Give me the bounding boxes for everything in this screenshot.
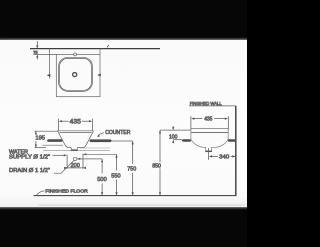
faint page edge line near bottom: [38, 204, 245, 206]
drain stub bottom (front elevation): [71, 149, 78, 151]
dimension 435 (shared, below top view): [58, 119, 92, 131]
left vertical line from wall with arrow: [49, 49, 51, 79]
svg-text:500: 500: [97, 177, 107, 183]
counter square (top view): [56, 54, 100, 96]
basin side view front rim edge line: [191, 132, 228, 134]
water supply leader: [53, 154, 65, 156]
dimension line 850: [159, 130, 161, 195]
supply height extension to 550: [83, 153, 117, 155]
svg-text:DRAIN Ø 1 1/2": DRAIN Ø 1 1/2": [9, 168, 50, 174]
dimension 200 extension lines: [67, 154, 83, 169]
counter height extension to 750: [112, 140, 133, 142]
dimension line 550: [116, 154, 118, 195]
drain (top view): [73, 73, 77, 77]
sink outer rim (top view): [59, 57, 93, 91]
svg-text:750: 750: [127, 167, 136, 173]
drain outlet circle: [74, 157, 77, 160]
svg-text:100: 100: [169, 134, 177, 140]
svg-text:200: 200: [71, 163, 80, 169]
basin bowl (front elevation) outer profile: [58, 131, 93, 150]
svg-text:435: 435: [70, 118, 82, 125]
wall line (top view, finished wall): [30, 48, 160, 50]
drain stub bottom (side view): [205, 151, 212, 153]
tick above wall line: [107, 45, 109, 48]
sink inner rim (top view): [60, 58, 92, 90]
dimension 195 (bowl height, front elevation): [35, 131, 58, 148]
drain leader diagonal: [54, 160, 74, 173]
rim height extension to 850: [160, 129, 191, 131]
svg-text:850: 850: [152, 163, 161, 169]
dimension line 500: [101, 159, 103, 196]
COUNTER leader arrow: [99, 133, 104, 136]
dimension line 750: [132, 141, 134, 196]
svg-text:195: 195: [35, 136, 45, 142]
floor line: [34, 195, 237, 197]
right edge extension up to wall + arrow: [99, 49, 101, 55]
dimension 435 (side view): [191, 116, 228, 131]
counter top edge extended left for 75 dim: [34, 53, 57, 55]
counter slab left (front elevation): [47, 139, 62, 142]
dimension 340 (drain to wall, side view): [209, 148, 236, 160]
drain height extension to 500: [77, 158, 102, 160]
svg-text:FINISHED WALL: FINISHED WALL: [190, 101, 222, 106]
basin side view outer profile: [191, 128, 228, 151]
finished wall vertical: [235, 106, 237, 196]
svg-text:COUNTER: COUNTER: [105, 130, 130, 136]
svg-text:550: 550: [111, 173, 120, 179]
svg-text:435: 435: [204, 116, 212, 122]
svg-text:SUPPLY Ø 1/2": SUPPLY Ø 1/2": [9, 154, 50, 160]
counter slab right (front elevation): [90, 139, 112, 142]
finished wall underline: [189, 105, 236, 107]
basin bowl inner rim line: [59, 131, 91, 133]
counter under lines (front elevation): [43, 144, 64, 146]
dimension 75 (wall to counter edge): [36, 41, 38, 60]
counter slab left (side view): [182, 139, 191, 142]
svg-text:340: 340: [219, 155, 229, 161]
finished floor leader: [37, 191, 45, 195]
counter slab right (side view): [228, 139, 236, 142]
dimension 100 (rim above counter): [172, 126, 174, 127]
faucet hole: [74, 53, 77, 56]
svg-text:FINISHED FLOOR: FINISHED FLOOR: [45, 188, 88, 193]
